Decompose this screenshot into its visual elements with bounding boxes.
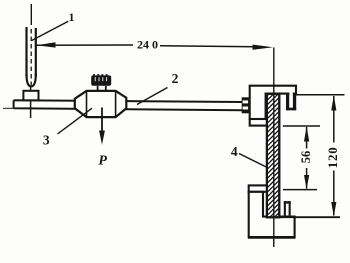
probe centerline dashed — [30, 29, 32, 85]
dimension 56 lower arrowhead — [304, 175, 309, 189]
dimension 240 line left segment — [36, 44, 133, 46]
top bracket hook left wall — [286, 94, 289, 110]
dimension 56 line lower — [306, 168, 308, 189]
svg-text:3: 3 — [43, 132, 50, 147]
extension line lower (56) — [283, 189, 317, 191]
dimension 240 right arrowhead — [253, 45, 274, 50]
force arrow P head — [99, 131, 105, 145]
dimension 56 upper arrowhead — [304, 126, 309, 141]
top bracket flange — [250, 119, 273, 126]
bottom bracket block — [249, 192, 295, 238]
svg-text:120: 120 — [325, 146, 340, 168]
knurled screw knob — [91, 75, 111, 85]
clamp body left face line — [86, 91, 88, 117]
svg-text:24 0: 24 0 — [137, 38, 158, 52]
leader line for 3 — [58, 108, 93, 134]
top bracket bar and block — [250, 86, 296, 119]
leader line for 4 — [239, 154, 268, 168]
dimension 120 line lower — [333, 171, 335, 216]
force arrow P shaft — [101, 108, 103, 135]
leader line for 1 — [31, 21, 68, 41]
svg-text:1: 1 — [69, 10, 75, 24]
dimension 120 upper arrowhead — [331, 95, 336, 110]
vertical centerline of plate assembly — [273, 48, 275, 248]
anvil block under probe — [23, 91, 38, 101]
svg-text:4: 4 — [231, 144, 238, 159]
bottom bracket nub top — [284, 201, 291, 203]
leader line for 2 — [137, 88, 168, 105]
dimension 120 lower arrowhead — [331, 202, 336, 216]
probe axis through anvil — [30, 86, 32, 118]
probe spindle rounded tip — [27, 74, 36, 86]
arm end boss (screw collar) — [242, 97, 249, 113]
svg-text:2: 2 — [172, 71, 179, 86]
knurled screw stem — [97, 86, 99, 92]
dimension 56 line upper — [306, 127, 308, 149]
extension line top (120) — [295, 94, 345, 96]
extension line upper (56) — [283, 125, 320, 127]
svg-text:56: 56 — [299, 151, 313, 164]
knurl highlights — [94, 77, 96, 81]
bottom bracket nub left wall — [284, 201, 286, 216]
dimension 240 left arrowhead — [36, 42, 55, 47]
plate outline redraw — [267, 94, 279, 218]
clamp body right face line — [115, 91, 117, 117]
top bracket slot white patch — [289, 92, 292, 107]
upright plate (part 4) body — [267, 94, 279, 218]
top bracket hook bottom — [286, 108, 296, 111]
measuring arm (part 2) left bottom stub — [3, 107, 14, 109]
probe spindle (part 1) left wall — [25, 27, 27, 76]
extension line bottom (120) — [280, 216, 340, 218]
clamp body (part 3) octagon — [75, 91, 127, 117]
measuring arm (part 2) body — [14, 100, 242, 110]
svg-text:P: P — [98, 154, 107, 169]
probe spindle (part 1) right wall — [35, 28, 37, 76]
top bracket hook right wall — [293, 93, 296, 111]
dimension 120 line upper — [333, 96, 335, 143]
bottom bracket nub right wall — [289, 201, 291, 216]
dimension 240 line right segment — [160, 46, 256, 47]
probe centerline upper solid dash — [30, 4, 32, 25]
bottom bracket flange — [249, 185, 269, 191]
plate hatching — [266, 83, 280, 231]
